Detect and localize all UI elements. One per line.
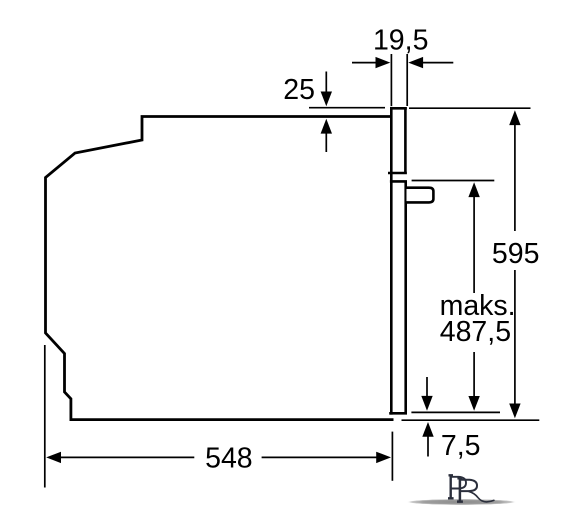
dimension 19,5 arrow left (352, 57, 390, 68)
watermark letter R (457, 478, 495, 502)
dimension 7,5 lower up arrow (422, 422, 433, 457)
svg-text:595: 595 (492, 238, 540, 270)
front frame left edge (390, 107, 393, 415)
top extension line (409, 107, 531, 109)
dimension 548 line left segment with left arrow (46, 452, 194, 463)
dimension 19,5 extension line right (406, 54, 408, 106)
door handle (407, 188, 434, 203)
dimension 595 line lower segment with down arrow (509, 270, 520, 418)
door top extension line (412, 180, 495, 182)
dimension 19,5 arrow right (408, 57, 453, 68)
frame bottom extension line (411, 411, 500, 413)
svg-text:19,5: 19,5 (373, 24, 428, 56)
watermark letter P (448, 475, 466, 498)
dimension 487,5 line upper segment with up arrow (468, 182, 479, 293)
dimension 548 extension line right (391, 432, 393, 481)
dimension 19,5 extension line left (390, 54, 392, 106)
oven door section (389, 180, 407, 414)
dimension 548 line right segment with right arrow (262, 452, 391, 463)
oven body outline (46, 117, 394, 420)
dimension 487,5 line lower segment with down arrow (468, 352, 479, 411)
dimension 548 extension line left (44, 345, 46, 488)
svg-text:7,5: 7,5 (441, 430, 481, 462)
body bottom extension line (402, 419, 540, 421)
dimension 595 line upper segment with up arrow (509, 110, 520, 231)
control panel section (388, 107, 407, 174)
watermark swoosh (407, 499, 517, 505)
dimension 25 extension line (309, 107, 385, 109)
dimension 7,5 upper down arrow (421, 377, 432, 411)
dimension 25 up arrow (321, 119, 332, 152)
svg-text:487,5: 487,5 (440, 316, 511, 348)
dimension 25 down arrow (321, 72, 332, 107)
svg-text:25: 25 (283, 74, 315, 106)
svg-text:548: 548 (205, 442, 253, 474)
